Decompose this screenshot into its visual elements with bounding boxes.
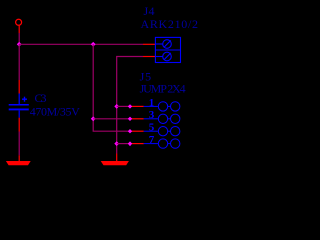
connector J4 pin 1 (red)	[143, 43, 155, 45]
svg-text:5: 5	[149, 122, 155, 134]
pin red: ground lead left	[18, 155, 20, 161]
wire: J4 pin 2 net, corner at x=116.7	[117, 57, 143, 154]
node B junction	[91, 42, 96, 47]
pin-end junction row 1	[128, 104, 132, 108]
svg-text:JUMP 2X4: JUMP 2X4	[140, 82, 186, 96]
svg-text:470M/35V: 470M/35V	[30, 105, 80, 119]
connector J4 pin 2 (red)	[143, 56, 155, 58]
wire: vertical from node B down to row 5 corner	[93, 44, 130, 131]
ground (right)	[101, 161, 129, 165]
pin-end junction row 7	[128, 141, 132, 146]
node A junction	[17, 42, 22, 47]
capacitor C3 pin 1 (red)	[18, 80, 20, 94]
svg-text:ARK210/2: ARK210/2	[141, 17, 199, 31]
connector J4 body	[155, 37, 180, 62]
node junction row1 on x=116.7	[114, 104, 119, 109]
wire: row 1 from junction to pin	[117, 105, 130, 107]
ground (left)	[6, 161, 31, 165]
svg-text:3: 3	[149, 109, 155, 121]
svg-text:J4: J4	[144, 4, 155, 18]
pin (red) from power circle	[18, 25, 20, 33]
pin-end junction row 3	[128, 117, 132, 121]
wire: node A down to C3	[18, 44, 20, 80]
pin-end junction row 5	[128, 129, 132, 133]
node junction row7 on x=116.7	[114, 141, 119, 146]
wire: row 7 from junction to pin	[117, 143, 130, 145]
pin red: ground lead right	[116, 154, 118, 162]
wire: row 3 from junction to pin	[93, 118, 130, 120]
connector J5 body (jumper circles)	[144, 102, 180, 149]
node junction at row 3 on x=93	[91, 116, 96, 121]
wire: main horizontal net	[19, 43, 143, 45]
svg-text:1: 1	[149, 97, 155, 109]
svg-text:7: 7	[149, 134, 155, 146]
svg-text:C3: C3	[35, 91, 47, 105]
connector J5 pins (red stubs)	[130, 106, 144, 143]
capacitor C3 pin 2 (red)	[18, 118, 20, 132]
wire: power drop to node A	[18, 33, 20, 44]
capacitor C3	[9, 94, 29, 118]
power node circle	[16, 19, 22, 25]
wire: C3 to ground	[18, 132, 20, 156]
